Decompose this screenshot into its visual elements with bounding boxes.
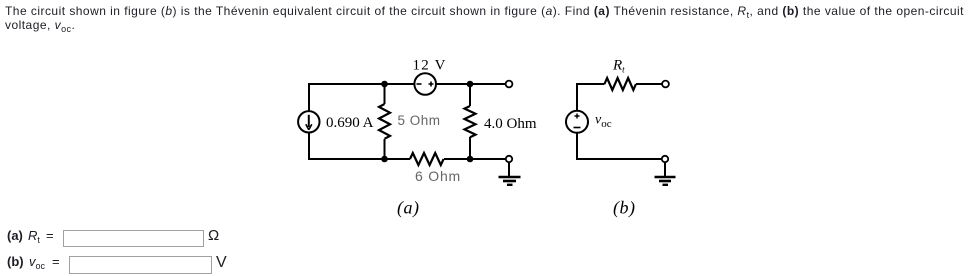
current source I 0.690 A (circle with down arrow) bbox=[298, 111, 319, 132]
node dot: fig(a) top of 4.0 Ohm branch bbox=[467, 81, 474, 88]
wire: fig(b) top-left loop (left vertical above source + top wire to Rt) bbox=[577, 84, 605, 111]
wire: fig(a) ground lead bbox=[508, 162, 510, 176]
equals sign (a) bbox=[46, 228, 54, 243]
voltage source Voc (circle with + top, - bottom) bbox=[566, 111, 588, 133]
svg-text:(a): (a) bbox=[397, 198, 420, 219]
resistor Rt (horizontal zigzag) bbox=[605, 78, 636, 90]
terminal: fig(a) bottom-right open circle bbox=[506, 156, 512, 162]
svg-text:voc: voc bbox=[595, 113, 612, 131]
unit V bbox=[216, 254, 227, 272]
answer symbol voc bbox=[29, 254, 45, 269]
unit Ohm bbox=[208, 227, 219, 244]
wire: fig(b) top wire from Rt to terminal bbox=[636, 83, 662, 85]
node dot: fig(a) bottom of 4.0 Ohm branch bbox=[467, 156, 474, 163]
svg-text:Rt: Rt bbox=[612, 58, 625, 75]
terminal: fig(a) top-right open circle bbox=[506, 81, 513, 88]
equals sign (b) bbox=[52, 254, 60, 269]
node dot: fig(a) bottom of 5 Ohm branch bbox=[381, 156, 388, 163]
answer symbol Rt bbox=[28, 228, 40, 243]
resistor 5 Ohm (vertical zigzag) bbox=[379, 104, 390, 139]
input box (a) bbox=[63, 230, 204, 247]
terminal: fig(b) bottom-right open circle bbox=[662, 156, 668, 162]
input box (b) bbox=[69, 256, 212, 274]
svg-text:(b): (b) bbox=[613, 198, 636, 219]
resistor 4.0 Ohm (vertical zigzag) bbox=[465, 106, 476, 137]
wire: 5 Ohm branch top lead bbox=[384, 84, 386, 104]
answer label (a) bbox=[7, 228, 23, 243]
ground: fig(b) bbox=[655, 177, 676, 185]
svg-text:12 V: 12 V bbox=[413, 58, 447, 74]
wire: fig(b) bottom wire from source to terminal bbox=[577, 133, 662, 159]
resistor 6 Ohm (horizontal zigzag on bottom wire) bbox=[410, 153, 444, 165]
wire: 4.0 Ohm branch top lead bbox=[469, 84, 471, 106]
terminal: fig(b) top-right open circle bbox=[662, 81, 669, 88]
svg-text:4.0 Ohm: 4.0 Ohm bbox=[484, 116, 537, 132]
wire: fig(a) bottom-left loop (left vertical below source + bottom wire to 6 Ohm) bbox=[309, 132, 410, 159]
answer label (b) bbox=[7, 254, 24, 269]
wire: fig(b) ground lead bbox=[664, 162, 666, 176]
wire: 4.0 Ohm branch bottom lead bbox=[469, 137, 471, 159]
svg-text:6 Ohm: 6 Ohm bbox=[415, 168, 461, 184]
wire: fig(a) bottom wire from 6 Ohm to bottom-right terminal bbox=[444, 158, 506, 160]
wire: 5 Ohm branch bottom lead bbox=[384, 139, 386, 159]
svg-text:5 Ohm: 5 Ohm bbox=[398, 113, 441, 128]
svg-text:0.690 A: 0.690 A bbox=[326, 115, 374, 131]
node dot: fig(a) top of 5 Ohm branch bbox=[381, 81, 388, 88]
voltage source 12 V (circle with - +) bbox=[414, 73, 436, 95]
wire: fig(a) top-left loop (left vertical above source + top wire to 12V source) bbox=[309, 84, 415, 111]
ground: fig(a) bbox=[499, 177, 521, 185]
wire: fig(a) top wire from 12V source to top-right terminal bbox=[436, 83, 506, 85]
